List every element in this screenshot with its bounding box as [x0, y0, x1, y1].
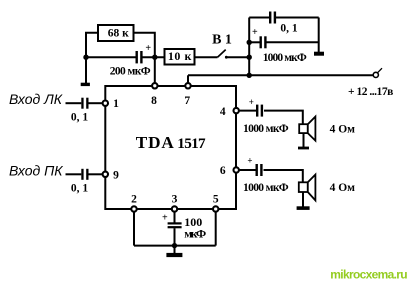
svg-text:10 к: 10 к — [168, 49, 192, 63]
junction dot switch contact — [225, 56, 228, 59]
ground bar bottom — [166, 253, 182, 257]
capacitor C 1000uF supply plates — [260, 36, 262, 48]
svg-text:8: 8 — [151, 95, 157, 107]
capacitor C 200uF plates — [136, 51, 138, 63]
wire input LK — [66, 102, 82, 104]
junction dot 68k left — [83, 55, 88, 60]
svg-text:5: 5 — [213, 193, 219, 205]
wire 68k left lead — [86, 33, 98, 57]
svg-text:0, 1: 0, 1 — [71, 111, 89, 123]
capacitor C 0.1 input PK plates — [81, 169, 83, 180]
svg-text:1: 1 — [113, 98, 119, 110]
junction dot pin8 line — [152, 55, 157, 60]
svg-text:0, 1: 0, 1 — [280, 23, 298, 35]
wire +12V rail — [188, 74, 374, 76]
wire pin2 down — [133, 212, 135, 246]
junction dot supply switch — [247, 55, 252, 60]
wire speaker 2 to ground — [302, 192, 304, 207]
svg-text:1000 мкФ: 1000 мкФ — [243, 182, 289, 194]
svg-text:TDA: TDA — [136, 133, 175, 152]
terminal +12V — [373, 72, 378, 77]
pin 4 terminal — [234, 108, 239, 113]
svg-text:+: + — [247, 156, 252, 166]
wire 200uF feedback line — [86, 56, 136, 58]
resistor R 68k box — [98, 25, 134, 41]
pin 6 terminal — [234, 167, 239, 172]
capacitor C 100uF plates — [168, 222, 182, 224]
svg-text:1000 мкФ: 1000 мкФ — [263, 52, 307, 64]
junction dot bottom cap rail — [172, 243, 177, 248]
resistor R 10k box — [165, 49, 195, 65]
speaker LS2 — [299, 175, 316, 201]
svg-text:В 1: В 1 — [212, 33, 232, 48]
switch B1 blade — [218, 50, 226, 58]
svg-text:1000 мкФ: 1000 мкФ — [243, 123, 289, 135]
svg-text:+: + — [252, 27, 258, 38]
wire cap 100uF to rail — [174, 228, 176, 245]
op-amp IC U1 TDA1517 body — [105, 86, 236, 209]
junction dot supply rail — [247, 73, 252, 78]
wire right vertical to ground — [318, 18, 320, 53]
svg-text:2: 2 — [131, 193, 137, 205]
ground bar speaker 1 — [298, 147, 309, 150]
wire 0.1uF top branch — [249, 17, 269, 19]
svg-text:+: + — [249, 97, 254, 107]
svg-text:+: + — [162, 213, 168, 224]
svg-text:9: 9 — [113, 169, 119, 181]
svg-text:3: 3 — [172, 193, 178, 205]
terminal +12V tick — [378, 68, 382, 73]
capacitor C 1000uF pin6 plates — [256, 164, 258, 176]
wire pin7 stub — [187, 75, 189, 83]
svg-text:0, 1: 0, 1 — [71, 183, 89, 195]
svg-text:6: 6 — [220, 165, 226, 177]
wire input PK — [66, 173, 82, 175]
pin 3 terminal — [172, 206, 177, 211]
svg-text:мкФ: мкФ — [184, 226, 206, 240]
ground bar supply — [314, 52, 324, 56]
wire pin6 to cap — [239, 169, 255, 171]
svg-text:1517: 1517 — [177, 135, 206, 152]
pin 1 terminal — [103, 101, 108, 106]
ground bar speaker 2 — [297, 206, 310, 210]
svg-text:Вход ПК: Вход ПК — [9, 162, 63, 178]
wire ground stub bottom — [174, 246, 176, 253]
capacitor C 0.1 input LK plates — [81, 12, 324, 258]
svg-text:mikrocxema.ru: mikrocxema.ru — [330, 267, 407, 281]
svg-text:68 к: 68 к — [108, 27, 129, 39]
wire pin3 to cap 100uF — [174, 212, 176, 223]
svg-text:+: + — [145, 43, 151, 54]
svg-text:7: 7 — [184, 95, 190, 107]
svg-text:+ 12 ...17в: + 12 ...17в — [348, 86, 393, 98]
wire 1000uF branch — [249, 41, 259, 43]
svg-text:4 Ом: 4 Ом — [330, 124, 356, 136]
wire pin4 to cap — [239, 110, 256, 112]
svg-text:4 Ом: 4 Ом — [330, 182, 356, 194]
wire bottom rail — [134, 245, 216, 247]
capacitor C 0.1 top plates — [269, 12, 271, 24]
ground bar left — [81, 83, 90, 86]
wire 10k to switch — [195, 56, 218, 58]
svg-text:Вход ЛК: Вход ЛК — [9, 91, 63, 107]
wire switch to supply node — [227, 56, 249, 58]
wire speaker 1 to ground — [303, 133, 305, 147]
svg-text:4: 4 — [220, 106, 226, 118]
pin 8 terminal — [152, 83, 157, 88]
capacitor C 1000uF pin4 plates — [256, 105, 258, 117]
wire cap to speaker 1 — [264, 111, 303, 125]
pin 9 terminal — [103, 172, 108, 177]
wire left vertical to ground — [85, 57, 87, 83]
pin 7 terminal — [185, 83, 190, 88]
wire pin5 down — [215, 212, 217, 246]
pin 5 terminal — [213, 206, 218, 211]
svg-text:200 мкФ: 200 мкФ — [110, 66, 151, 78]
wire 68k right lead down to pin 8 — [134, 33, 155, 83]
wire supply vertical — [248, 18, 250, 76]
junction dot supply 1000uF — [247, 40, 252, 45]
pin 2 terminal — [131, 206, 136, 211]
wire cap to speaker 2 — [264, 170, 303, 182]
speaker LS1 — [299, 117, 315, 141]
